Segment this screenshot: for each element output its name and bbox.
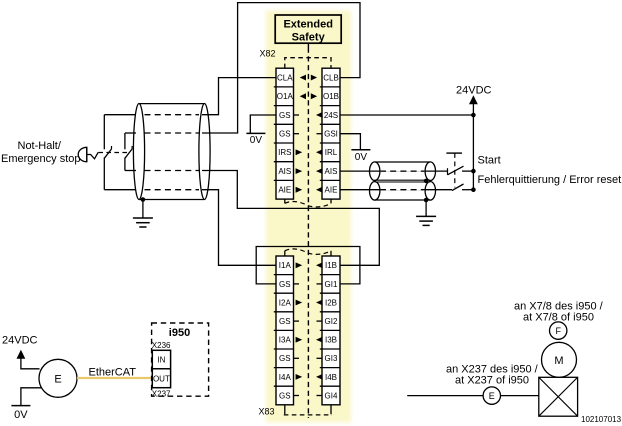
wire shield drain W1 [142,200,144,219]
signal arrow out, row 1 side A [300,93,306,99]
wire terminal GS to 0V [250,115,276,133]
wire motor encoder cable, left segment [407,395,483,397]
svg-text:IRL: IRL [325,148,338,157]
button S2 actuator bar [446,152,462,154]
svg-text:I2B: I2B [325,298,337,307]
svg-text:GS: GS [279,111,291,120]
module centre partition (dashed) [307,43,309,47]
signal arrow in, row 6 side A [296,374,303,380]
wire 0V to controller [21,388,42,406]
svg-text:Start: Start [478,155,501,167]
junction reset / rail [471,187,476,192]
signal arrow in, row 4 side B [316,337,323,343]
terminal tick, row 5 side A [294,357,300,359]
wire 24V to controller [21,358,40,369]
button S2 Start contact [448,166,464,175]
signal arrow in, row 2 side A [296,300,303,306]
svg-text:0V: 0V [14,409,28,421]
signal arrow in, row 0 side B [316,262,323,268]
svg-text:CLB: CLB [323,74,339,83]
0V reference at X82 GS [246,133,265,146]
X82 terminal column A (CLA O1A GS GS IRS AIS AIE) [274,68,294,199]
shielded cable W1 (emergency stop), cylinder body [133,104,210,200]
svg-text:GS: GS [279,391,291,400]
wire terminal AIE-B to reset button [340,189,452,191]
terminal tick, row 7 side A [294,395,300,397]
wire shield to terminal I1A [202,190,276,266]
terminal tick, row 7 side B [317,395,323,397]
wire contact1 bottom to shield, left (y190) [104,189,136,191]
signal arrow in, row 4 side A [296,337,303,343]
wire terminal 24S to 24V rail [340,114,473,116]
wire jumper GS to GI1 [256,247,360,284]
switch S1 contact 1 (NC) [104,115,111,190]
X82 connector outline, top dashed bracket [285,58,331,68]
svg-text:I4B: I4B [325,373,337,382]
conductor dashes in W3 [380,189,425,191]
i950 device dashed outline [152,323,209,396]
signal arrow in, row 4 side A [296,149,303,155]
terminal tick, row 1 side A [294,283,300,285]
svg-text:102107013: 102107013 [581,415,622,424]
X83 terminal column B (I1B GI1 I2B GI2 I3B GI3 I4B GI4) [320,256,340,405]
wire shield drain W2-W3 [425,200,427,216]
motor M circle [542,342,577,377]
svg-text:24S: 24S [324,111,338,120]
svg-text:0V: 0V [355,152,368,163]
svg-text:I3A: I3A [279,336,292,345]
junction start / rail [471,169,476,174]
wire contact2 bottom to shield, left (y170) [125,170,136,172]
ground cable W1 shield [133,218,153,227]
port block IN / OUT [152,350,170,387]
signal arrow in, row 0 side A [296,262,303,268]
svg-text:CLA: CLA [277,74,293,83]
svg-text:GS: GS [279,130,291,139]
wire reset button to rail [462,189,473,191]
signal arrow in, row 2 side B [316,112,323,118]
signal arrow in, row 6 side B [316,187,323,193]
svg-text:i950: i950 [169,327,190,339]
EtherCAT bus line [77,377,154,379]
button S2 actuator link [454,153,456,187]
svg-text:AIS: AIS [278,167,291,176]
button S2 Reset contact [452,184,464,191]
wire shield to terminal I1B [202,171,379,266]
terminal tick, row 3 side B [317,320,323,322]
svg-text:GI4: GI4 [325,391,338,400]
ground cables W2 W3 shields [416,216,436,225]
svg-text:I3B: I3B [325,336,337,345]
conductor dashes in W2 [380,170,425,172]
svg-text:I1B: I1B [325,261,337,270]
junction W3 shield / ground [424,198,429,203]
junction 24S / rail [471,113,476,118]
svg-text:Safety: Safety [292,32,326,44]
svg-text:AIS: AIS [325,167,338,176]
signal arrow out, row 0 side B [311,75,317,81]
conductor I1A wire (dashed in shield) [145,189,200,191]
svg-text:E: E [489,391,495,401]
svg-text:AIE: AIE [325,186,338,195]
encoder connector E circle [483,387,500,404]
terminal tick, row 3 side A [294,133,300,135]
0V reference at controller [11,406,30,422]
svg-text:OUT: OUT [153,374,170,383]
svg-text:F: F [555,326,561,336]
X82 terminal column B (CLB O1B 24S GSI IRL AIS AIE) [320,68,340,199]
brake F circle [550,322,567,339]
terminal tick, row 5 side B [317,357,323,359]
signal arrow out, row 1 side B [311,93,317,99]
svg-text:IN: IN [157,355,165,364]
svg-text:E: E [54,373,61,385]
svg-text:X236: X236 [152,341,171,350]
signal arrow in, row 5 side A [296,168,303,174]
Extended Safety function block [275,15,341,43]
svg-text:O1A: O1A [277,92,294,101]
svg-text:0V: 0V [250,135,263,146]
svg-text:M: M [554,355,563,367]
signal arrow out, row 0 side A [300,75,306,81]
wire terminal CLB loop over top [202,3,360,133]
signal arrow in, row 6 side B [316,374,323,380]
terminal tick, row 3 side A [294,320,300,322]
X82 connector outline, bottom stubs and dashed swoop [284,199,286,203]
svg-text:at X237 of i950: at X237 of i950 [455,375,529,387]
svg-text:24VDC: 24VDC [456,85,492,97]
wire contact2 top to shield, left (y133) [125,132,136,134]
svg-text:GI2: GI2 [325,317,338,326]
X83 terminal column A (I1A GS I2A GS I3A GS I4A GS) [274,256,294,405]
svg-text:GI1: GI1 [325,280,338,289]
conductor CLA wire (dashed in shield) [145,114,200,116]
svg-text:I4A: I4A [279,373,292,382]
conductor I1B wire (dashed in shield) [145,170,200,172]
svg-text:Fehlerquittierung / Error rese: Fehlerquittierung / Error reset [478,174,622,186]
svg-text:EtherCAT: EtherCAT [89,367,137,379]
svg-text:Not-Halt/: Not-Halt/ [18,140,62,152]
terminal tick, row 3 side B [317,133,323,135]
emergency stop latch (v notch) [87,152,98,159]
svg-text:Emergency stop: Emergency stop [1,153,80,165]
switch S1 contact 2 (NC) [125,133,132,171]
svg-text:Extended: Extended [283,19,333,31]
svg-text:O1B: O1B [323,92,339,101]
svg-text:X82: X82 [260,49,276,59]
junction cable W1 shield to ground [141,197,146,202]
signal arrow in, row 4 side B [316,149,323,155]
gearbox (crossed box) [539,377,578,416]
X83 connector outline, top stubs and dashed swoop [284,251,286,256]
svg-text:AIE: AIE [278,186,291,195]
X83 connector outline, bottom dashed bracket [284,405,286,414]
emergency stop actuator (mushroom head) [78,147,87,161]
junction W2/W3 shields [424,179,429,184]
24V supply arrow [469,95,478,104]
svg-text:GS: GS [279,317,291,326]
svg-text:GI3: GI3 [325,354,338,363]
svg-text:GS: GS [279,354,291,363]
svg-text:I1A: I1A [279,261,292,270]
terminal tick, row 2 side A [294,114,300,116]
signal arrow in, row 5 side B [316,168,323,174]
svg-text:I2A: I2A [279,298,292,307]
shielded cable W3 (AIE wire), cylinder [370,182,436,201]
conductor CLB wire (dashed in shield) [145,132,200,134]
wire start button to rail [462,170,473,172]
svg-text:24VDC: 24VDC [2,335,38,347]
controller E (EtherCAT master) circle [39,359,77,397]
wire motor encoder cable, right segment [501,395,539,397]
wire contact1 to shield, left (y115) [104,114,136,116]
svg-text:GSI: GSI [324,130,338,139]
signal arrow in, row 6 side A [296,187,303,193]
svg-text:X237: X237 [152,390,171,399]
24V supply arrow (bottom left) [17,350,26,359]
wire terminal GSI to 0V [340,134,360,150]
svg-text:X83: X83 [259,407,275,417]
signal arrow in, row 2 side B [316,300,323,306]
mechanical link dashes [98,152,128,154]
terminal tick, row 1 side B [317,283,323,285]
0V reference at X82 GSI [351,150,370,163]
shielded cable W2 (AIS wire), cylinder [370,162,436,181]
wire shield to terminal CLA [202,78,276,115]
svg-text:GS: GS [279,280,291,289]
svg-text:IRS: IRS [278,148,291,157]
wire 24V rail [472,104,474,190]
wire terminal AIS-B to start button [340,170,448,172]
